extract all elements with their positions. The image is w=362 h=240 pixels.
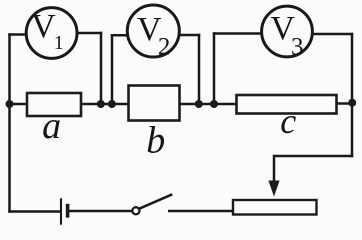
node: junction dot right rail / row	[348, 99, 356, 107]
wire: V2 right vertical drop to node	[198, 34, 201, 104]
wire: right rail	[351, 33, 354, 157]
wire: V2 right lead	[179, 34, 201, 37]
wire: battery to switch	[68, 210, 133, 213]
wire: main row segment resistor b to resistor c	[180, 103, 237, 106]
resistor a	[27, 93, 81, 147]
svg-text:1: 1	[54, 32, 64, 54]
resistor b	[129, 86, 180, 162]
rheostat wiper arrowhead	[268, 181, 279, 197]
wire: V3 left vertical rise from node	[213, 32, 216, 104]
wire: main row segment node A to resistor a	[10, 103, 28, 106]
switch K blade (open)	[139, 194, 172, 208]
wire: rheostat wiper vertical	[273, 155, 276, 183]
switch K pivot circle	[132, 207, 139, 214]
svg-text:a: a	[42, 105, 61, 147]
svg-text:2: 2	[158, 34, 171, 61]
voltmeter V3	[262, 6, 313, 60]
wire: V1 left lead	[8, 33, 27, 36]
wire: V3 right lead	[312, 33, 353, 36]
node: junction dot left rail / row	[6, 100, 14, 108]
voltmeter V1	[26, 8, 77, 59]
wire: V1 right lead	[77, 32, 103, 35]
rheostat R (slider box)	[233, 200, 317, 215]
wire: V3 left lead	[213, 32, 262, 35]
wire: V1 right vertical drop to node	[100, 32, 103, 104]
resistor c	[237, 95, 337, 141]
battery short plate (negative)	[66, 204, 70, 218]
node: junction dot V3 left at row	[210, 100, 218, 108]
wire: bottom left horizontal to battery	[8, 210, 61, 213]
wire: switch to rheostat	[168, 210, 233, 213]
wire: left rail	[8, 33, 11, 212]
node: junction dot V1 right at row	[97, 100, 105, 108]
wire: rheostat wiper horizontal from right rail	[273, 155, 353, 158]
node: junction dot V2 right at row	[195, 100, 203, 108]
wire: main row segment resistor c to right rail	[337, 102, 354, 105]
svg-text:V: V	[31, 8, 56, 45]
wire: V2 left lead	[111, 34, 128, 37]
voltmeter V2	[127, 5, 179, 61]
wire: V2 left vertical rise from node	[111, 34, 114, 104]
svg-text:b: b	[146, 120, 165, 162]
wire: main row segment resistor a to resistor b	[81, 103, 129, 106]
node: junction dot V2 left at row	[108, 100, 116, 108]
svg-text:c: c	[280, 101, 296, 141]
battery long plate (positive)	[60, 198, 62, 224]
svg-text:3: 3	[291, 34, 304, 61]
